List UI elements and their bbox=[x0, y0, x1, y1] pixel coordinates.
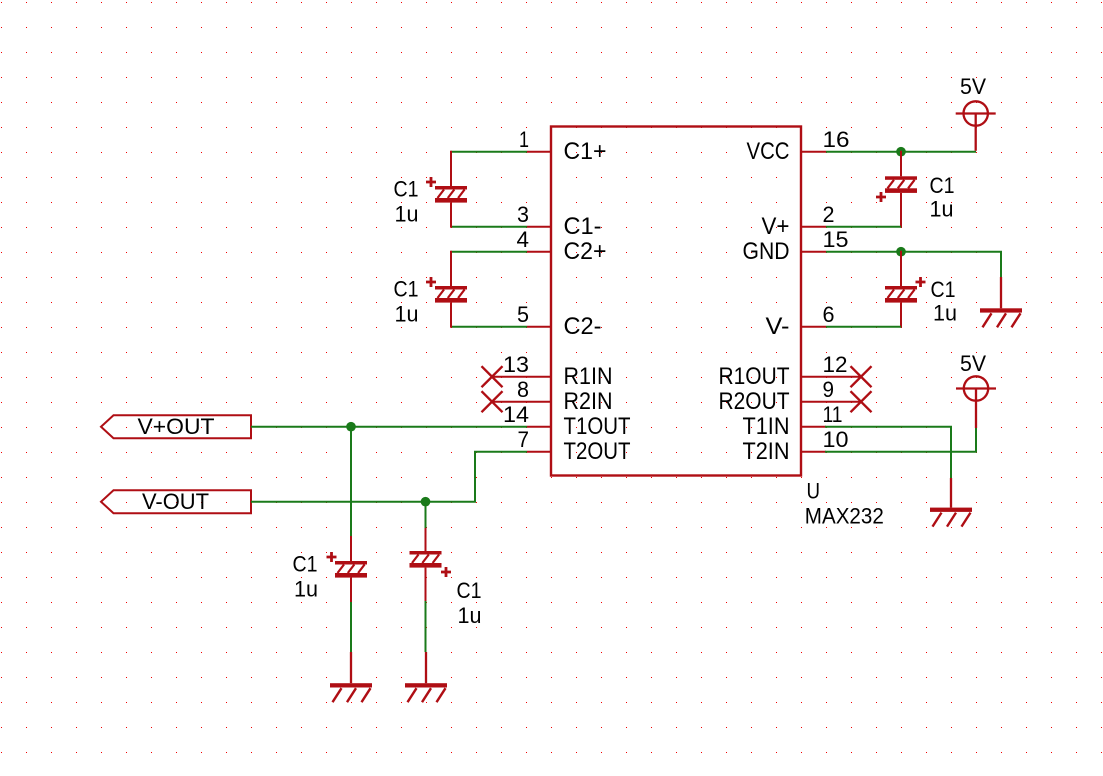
svg-text:C1: C1 bbox=[931, 277, 956, 302]
svg-text:15: 15 bbox=[823, 227, 849, 252]
no-connect X pin 13 bbox=[482, 366, 503, 387]
svg-text:C1+: C1+ bbox=[564, 138, 607, 165]
svg-text:T1IN: T1IN bbox=[743, 413, 790, 440]
ic U MAX232 body bbox=[551, 127, 801, 476]
pin 15 GND bbox=[743, 227, 849, 265]
svg-text:1u: 1u bbox=[933, 301, 957, 326]
pin 3 C1- bbox=[517, 202, 602, 240]
wire GND to ground bbox=[826, 252, 1001, 278]
wire cap to ground (bottom middle) bbox=[425, 601, 427, 652]
junction VCC net bbox=[896, 147, 906, 157]
svg-text:14: 14 bbox=[503, 402, 529, 427]
pin 1 C1+ bbox=[519, 127, 607, 165]
svg-text:4: 4 bbox=[517, 227, 530, 252]
capacitor C1 (bottom left) bbox=[293, 536, 368, 602]
svg-text:5: 5 bbox=[517, 302, 529, 327]
pin 6 V- bbox=[766, 302, 835, 340]
ground (bottom left) bbox=[330, 652, 372, 702]
svg-text:12: 12 bbox=[823, 352, 848, 377]
capacitor C1 (bottom middle) bbox=[410, 528, 482, 628]
svg-text:C1: C1 bbox=[394, 277, 419, 302]
svg-text:1u: 1u bbox=[294, 577, 318, 602]
junction V-OUT net bbox=[421, 497, 431, 507]
wire T1IN to ground bbox=[825, 427, 951, 479]
svg-text:1u: 1u bbox=[930, 196, 954, 221]
pin 12 R1OUT bbox=[719, 352, 862, 390]
power 5V (top) bbox=[956, 74, 996, 151]
svg-text:V+: V+ bbox=[762, 213, 790, 240]
svg-text:6: 6 bbox=[823, 302, 835, 327]
svg-text:1u: 1u bbox=[395, 301, 419, 326]
svg-text:T2IN: T2IN bbox=[743, 438, 790, 465]
svg-text:R2OUT: R2OUT bbox=[719, 388, 790, 415]
svg-text:11: 11 bbox=[823, 402, 843, 427]
svg-text:C1: C1 bbox=[457, 578, 482, 603]
power 5V (bottom) bbox=[956, 351, 996, 428]
ground (below T1IN) bbox=[930, 478, 972, 527]
wire pin5 to C2 bottom bbox=[452, 326, 528, 328]
svg-text:3: 3 bbox=[517, 202, 529, 227]
svg-text:8: 8 bbox=[517, 377, 529, 402]
no-connect X pin 9 bbox=[851, 391, 872, 412]
svg-text:9: 9 bbox=[823, 377, 835, 402]
ground (bottom middle) bbox=[405, 652, 447, 702]
pin 4 C2+ bbox=[517, 227, 607, 265]
svg-text:1: 1 bbox=[519, 127, 529, 152]
svg-text:1u: 1u bbox=[395, 201, 419, 226]
svg-text:U: U bbox=[807, 478, 821, 503]
pin 13 R1IN bbox=[492, 352, 613, 390]
wire V- to cap bbox=[826, 326, 901, 328]
capacitor C1 (second left) bbox=[394, 251, 468, 328]
capacitor C1 (top right) bbox=[876, 151, 955, 228]
junction V+OUT net bbox=[346, 422, 356, 432]
svg-text:1u: 1u bbox=[458, 603, 482, 628]
wire V+ to cap bbox=[826, 226, 901, 228]
capacitor C1 (top left) bbox=[394, 151, 468, 228]
junction GND net bbox=[896, 247, 906, 257]
wire pin1 to C1 top bbox=[452, 151, 528, 153]
no-connect X pin 12 bbox=[851, 366, 872, 387]
svg-text:R1OUT: R1OUT bbox=[719, 363, 790, 390]
wire VCC to 5V rail bbox=[826, 151, 976, 153]
svg-text:2: 2 bbox=[823, 202, 835, 227]
svg-text:MAX232: MAX232 bbox=[805, 504, 884, 529]
hierarchical label V-OUT bbox=[101, 489, 251, 514]
svg-text:T2OUT: T2OUT bbox=[564, 438, 631, 465]
wire pin3 to C1 bottom bbox=[452, 226, 528, 228]
svg-text:16: 16 bbox=[823, 127, 850, 152]
pin 8 R2IN bbox=[492, 377, 613, 415]
wire V+OUT to T1OUT bbox=[251, 426, 527, 428]
svg-text:V-: V- bbox=[766, 313, 790, 340]
svg-text:V+OUT: V+OUT bbox=[138, 414, 215, 439]
svg-text:7: 7 bbox=[518, 427, 530, 452]
svg-text:VCC: VCC bbox=[747, 138, 790, 165]
svg-text:R1IN: R1IN bbox=[564, 363, 613, 390]
wire pin4 to C2 top bbox=[452, 251, 528, 253]
pin 2 V+ bbox=[762, 202, 835, 240]
hierarchical label V+OUT bbox=[101, 414, 251, 439]
pin 11 T1IN bbox=[743, 402, 843, 440]
svg-text:V-OUT: V-OUT bbox=[142, 489, 209, 514]
svg-text:C2+: C2+ bbox=[564, 238, 607, 265]
wire V+OUT junction down to cap bbox=[350, 427, 352, 536]
wire cap to ground (bottom left) bbox=[350, 602, 352, 653]
svg-text:5V: 5V bbox=[960, 74, 986, 99]
reference U MAX232 bbox=[805, 478, 884, 528]
pin 5 C2- bbox=[517, 302, 602, 340]
svg-text:GND: GND bbox=[743, 238, 790, 265]
svg-text:5V: 5V bbox=[960, 351, 986, 376]
svg-text:R2IN: R2IN bbox=[564, 388, 613, 415]
no-connect X pin 8 bbox=[482, 391, 503, 412]
wire V-OUT junction down to cap bbox=[425, 502, 427, 528]
pin 16 VCC bbox=[747, 127, 850, 165]
svg-text:C1-: C1- bbox=[564, 213, 602, 240]
svg-text:C1: C1 bbox=[394, 177, 419, 202]
pin 10 T2IN bbox=[743, 427, 849, 465]
svg-text:T1OUT: T1OUT bbox=[564, 413, 631, 440]
wire T2IN to 5V bbox=[825, 428, 976, 452]
svg-text:C2-: C2- bbox=[564, 313, 602, 340]
svg-text:10: 10 bbox=[823, 427, 849, 452]
capacitor C1 (second right) bbox=[885, 251, 957, 328]
svg-text:C1: C1 bbox=[930, 173, 955, 198]
pin 7 T2OUT bbox=[518, 427, 631, 465]
svg-text:13: 13 bbox=[503, 352, 529, 377]
ground (right) bbox=[980, 277, 1022, 327]
svg-text:C1: C1 bbox=[293, 552, 318, 577]
pin 9 R2OUT bbox=[719, 377, 862, 415]
wire V-OUT to corner bbox=[251, 452, 527, 502]
pin 14 T1OUT bbox=[503, 402, 631, 440]
